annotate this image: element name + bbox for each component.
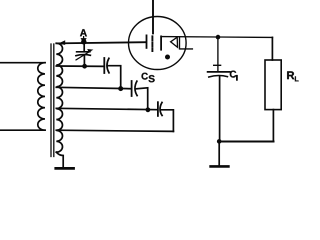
capacitor C1 bottom lead xyxy=(219,77,221,142)
variable capacitor bottom lead xyxy=(83,56,85,67)
capacitor C1 small upper tick xyxy=(214,64,221,66)
gas-fill dot inside tube xyxy=(165,55,170,60)
transformer T1 core xyxy=(50,44,52,157)
node grid-line junction dot xyxy=(118,86,123,91)
wire feedback cap right lead down to tap 5 xyxy=(161,110,173,132)
wire bottom rail xyxy=(219,141,273,143)
wire cathode to top rail xyxy=(161,36,272,39)
node rail/C1 junction dot xyxy=(216,35,221,40)
node variable cap / tap 2 dot xyxy=(82,64,87,69)
capacitor (feedback) right curved plate xyxy=(160,102,162,115)
arrowhead on winding top tap xyxy=(58,40,65,45)
capacitor C1 top lead xyxy=(217,37,219,71)
heater lead and stub xyxy=(180,37,193,49)
node A junction dot xyxy=(81,39,86,44)
capacitor CS right curved plate xyxy=(135,81,137,95)
capacitor (feedback, unlabeled) left plate xyxy=(157,102,159,116)
tube plate bar xyxy=(146,35,148,48)
transformer T1 secondary winding xyxy=(56,43,62,152)
node tap-4 junction dot xyxy=(146,107,151,112)
capacitor C1 top plate xyxy=(208,71,230,73)
heater arrow (triangle) xyxy=(171,37,178,47)
capacitor CS left plate xyxy=(131,81,133,96)
wire tap 3 (grid line) xyxy=(56,87,131,88)
arrow from label A down to node xyxy=(83,37,85,39)
wire tap 5 xyxy=(56,130,173,131)
variable capacitor bottom plate (curved) xyxy=(76,55,91,56)
wire tap 2 xyxy=(56,65,104,67)
variable capacitor top plate xyxy=(77,51,90,53)
wire primary top lead xyxy=(0,62,45,64)
variable capacitor arrow xyxy=(76,51,91,60)
wire primary bottom lead xyxy=(0,129,45,131)
label RL xyxy=(287,71,294,79)
capacitor (coupling, unlabeled) left plate xyxy=(103,58,105,73)
wire CS to tap-4 node xyxy=(136,88,148,110)
tube V1 envelope xyxy=(129,17,187,70)
resistor RL body xyxy=(265,60,281,110)
ground (right) bar xyxy=(211,165,229,168)
node bottom rail / C1 dot xyxy=(217,139,222,144)
tube grid top lead xyxy=(152,0,154,33)
wire tank top (tap A) to tube plate xyxy=(56,42,146,43)
ground (left, secondary return) xyxy=(56,167,74,170)
transformer T1 primary winding xyxy=(38,63,45,131)
wire coupling cap to grid line xyxy=(108,66,121,88)
tube grid (dashed) xyxy=(151,36,153,51)
variable capacitor (tuning) top lead xyxy=(83,42,85,51)
capacitor (coupling) right curved plate xyxy=(107,58,109,73)
wire tap 4 xyxy=(56,108,157,109)
tube cathode bar xyxy=(160,36,162,49)
capacitor C1 bottom curved plate xyxy=(209,75,228,77)
label A xyxy=(80,29,87,36)
label C1 xyxy=(230,71,236,78)
resistor RL bottom lead xyxy=(272,110,274,142)
label CS xyxy=(141,73,147,80)
ground (right) stub xyxy=(218,142,220,166)
wire secondary bottom to ground xyxy=(56,152,63,168)
resistor RL top lead xyxy=(271,37,273,60)
